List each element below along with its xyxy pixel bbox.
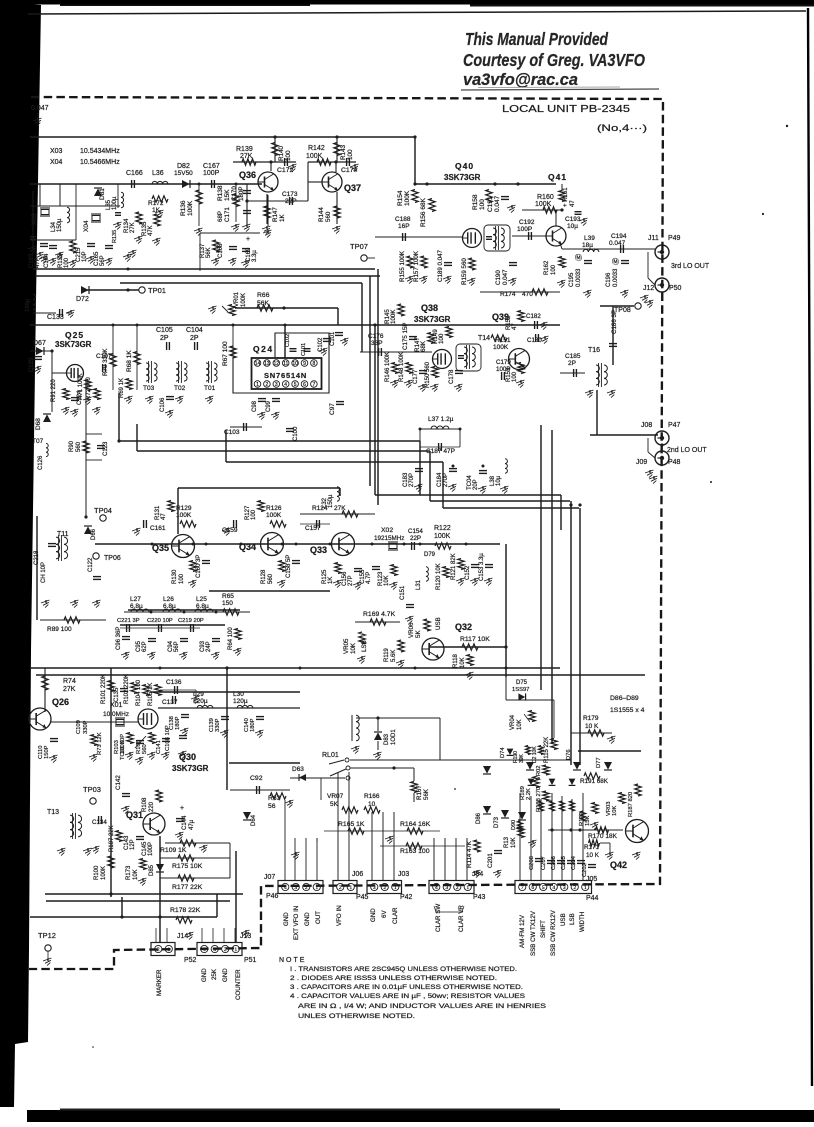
svg-text:R100: R100 <box>94 865 100 880</box>
svg-text:D76: D76 <box>566 749 572 760</box>
svg-text:P43: P43 <box>473 894 486 901</box>
svg-text:180P: 180P <box>250 718 256 732</box>
svg-text:47: 47 <box>161 513 167 520</box>
svg-text:2: 2 <box>224 947 227 953</box>
svg-text:20P: 20P <box>473 479 479 490</box>
svg-text:WIDTH: WIDTH <box>579 912 586 932</box>
svg-text:Ⓜ: Ⓜ <box>612 258 619 266</box>
svg-text:J08: J08 <box>641 422 652 429</box>
svg-text:VR04: VR04 <box>510 714 516 730</box>
svg-text:va3vfo@rac.ca: va3vfo@rac.ca <box>463 71 578 89</box>
svg-text:C135: C135 <box>114 687 120 702</box>
svg-text:2: 2 <box>456 885 459 891</box>
svg-text:D86: D86 <box>476 812 482 824</box>
svg-text:R178 22K: R178 22K <box>170 907 201 914</box>
svg-text:+: + <box>180 805 184 812</box>
svg-text:5: 5 <box>542 885 545 891</box>
svg-text:R115 22K: R115 22K <box>544 737 550 763</box>
svg-text:100K: 100K <box>176 512 192 519</box>
svg-text:P52: P52 <box>184 957 197 964</box>
svg-text:C191: C191 <box>487 196 494 212</box>
svg-text:10K: 10K <box>511 837 517 848</box>
svg-text:100K: 100K <box>266 512 282 519</box>
svg-text:10µ: 10µ <box>567 223 578 230</box>
svg-text:(No,4···): (No,4···) <box>597 123 647 134</box>
svg-text:R69 1K: R69 1K <box>119 378 125 398</box>
svg-text:R90: R90 <box>69 440 75 452</box>
svg-text:18µ: 18µ <box>582 242 593 249</box>
svg-text:L30: L30 <box>233 691 244 698</box>
svg-text:19215MHz: 19215MHz <box>374 535 404 542</box>
svg-text:R151: R151 <box>495 337 511 344</box>
svg-text:This Manual Provided: This Manual Provided <box>465 29 608 49</box>
svg-text:R128: R128 <box>261 569 267 584</box>
svg-text:C161: C161 <box>150 525 166 532</box>
svg-text:C152: C152 <box>465 565 471 580</box>
svg-text:R142: R142 <box>308 145 325 152</box>
svg-text:D67: D67 <box>33 340 46 347</box>
svg-text:C151: C151 <box>400 585 406 600</box>
svg-text:100: 100 <box>251 509 257 520</box>
svg-text:D68: D68 <box>35 418 42 430</box>
svg-text:R173: R173 <box>126 865 132 880</box>
svg-text:R156 68K: R156 68K <box>420 197 427 227</box>
svg-text:10: 10 <box>368 801 376 808</box>
svg-text:15K: 15K <box>224 189 231 201</box>
svg-text:10K: 10K <box>350 642 357 654</box>
svg-text:Q36: Q36 <box>239 170 256 180</box>
svg-text:150µ: 150µ <box>328 494 334 508</box>
svg-text:T13: T13 <box>47 809 59 816</box>
svg-text:Q31: Q31 <box>126 810 143 820</box>
svg-text:4.7P: 4.7P <box>366 572 372 584</box>
svg-text:C104: C104 <box>186 327 203 334</box>
svg-text:C190: C190 <box>495 270 502 285</box>
svg-text:I . TRANSISTORS ARE 2SC945Q: I . TRANSISTORS ARE 2SC945Q UNLESS OTHER… <box>290 966 517 973</box>
svg-text:C220 10P: C220 10P <box>147 618 173 624</box>
svg-text:3SK73GR: 3SK73GR <box>414 315 451 324</box>
svg-text:220: 220 <box>149 801 155 812</box>
svg-text:C122: C122 <box>88 557 94 572</box>
svg-text:100K: 100K <box>306 153 323 160</box>
svg-text:P47: P47 <box>668 422 681 429</box>
svg-text:T01: T01 <box>204 385 216 392</box>
svg-text:3: 3 <box>445 885 448 891</box>
svg-text:SSB CW RX12V: SSB CW RX12V <box>550 909 557 956</box>
svg-text:C172: C172 <box>277 167 293 174</box>
svg-text:P46: P46 <box>266 893 279 900</box>
svg-text:R64 100: R64 100 <box>228 627 234 650</box>
svg-text:R187 820: R187 820 <box>628 792 634 817</box>
svg-text:R119: R119 <box>384 647 390 662</box>
svg-text:1: 1 <box>466 885 469 891</box>
svg-text:39K: 39K <box>519 753 525 763</box>
svg-text:D2 10K: D2 10K <box>532 746 538 763</box>
svg-text:Q25: Q25 <box>65 330 84 340</box>
svg-text:Ⓜ: Ⓜ <box>575 254 582 262</box>
svg-text:6: 6 <box>531 885 534 891</box>
svg-text:R105 1K: R105 1K <box>148 683 154 706</box>
svg-text:100P: 100P <box>203 170 220 177</box>
svg-text:C194: C194 <box>611 233 627 240</box>
svg-text:10µ: 10µ <box>496 475 502 486</box>
svg-text:3: 3 <box>294 885 297 891</box>
svg-text:1: 1 <box>349 885 352 891</box>
svg-text:C176: C176 <box>368 333 384 340</box>
svg-text:C141: C141 <box>156 740 162 754</box>
svg-text:10K: 10K <box>384 575 390 586</box>
svg-text:C134: C134 <box>92 819 107 826</box>
svg-text:2P: 2P <box>160 335 169 342</box>
svg-text:CLAR SW: CLAR SW <box>435 904 442 932</box>
svg-text:560: 560 <box>268 573 274 584</box>
svg-text:C178: C178 <box>449 369 455 384</box>
svg-text:6: 6 <box>303 382 306 388</box>
svg-text:UNLES OTHERWISE NOTED.: UNLES OTHERWISE NOTED. <box>298 1013 415 1020</box>
svg-text:8: 8 <box>313 361 316 367</box>
svg-text:C193: C193 <box>565 216 581 223</box>
svg-text:C96 36P: C96 36P <box>116 627 122 650</box>
svg-text:R122: R122 <box>434 525 451 532</box>
svg-text:Q32: Q32 <box>455 622 472 632</box>
svg-text:13: 13 <box>264 361 270 367</box>
svg-text:R73 12K: R73 12K <box>97 732 103 755</box>
svg-text:Q42: Q42 <box>610 860 627 870</box>
svg-text:5: 5 <box>294 382 297 388</box>
svg-text:TP07: TP07 <box>350 242 368 251</box>
svg-text:NOTE: NOTE <box>279 957 306 964</box>
svg-text:D77: D77 <box>596 757 602 768</box>
svg-text:C106: C106 <box>160 397 166 412</box>
svg-text:11: 11 <box>283 361 288 367</box>
svg-text:R160: R160 <box>537 194 554 201</box>
svg-text:100K: 100K <box>404 190 411 206</box>
svg-text:1: 1 <box>394 885 397 891</box>
svg-text:D85: D85 <box>149 864 155 876</box>
svg-text:120µ: 120µ <box>233 698 248 705</box>
svg-text:D73: D73 <box>494 816 500 828</box>
svg-text:T16: T16 <box>588 347 600 354</box>
svg-text:4: 4 <box>284 885 287 891</box>
svg-text:C185: C185 <box>565 353 581 360</box>
svg-text:2P: 2P <box>190 335 199 342</box>
svg-text:3: 3 <box>563 885 566 891</box>
svg-text:4: 4 <box>435 885 438 891</box>
svg-text:P44: P44 <box>586 895 599 902</box>
svg-text:24P: 24P <box>206 641 212 652</box>
svg-text:P48: P48 <box>668 459 681 466</box>
svg-text:C195: C195 <box>569 272 575 287</box>
svg-text:R102 220K: R102 220K <box>124 674 130 704</box>
svg-text:25K: 25K <box>211 968 218 980</box>
svg-text:330P: 330P <box>215 718 221 732</box>
svg-text:1OD1: 1OD1 <box>391 729 397 745</box>
svg-text:MARKER: MARKER <box>156 969 163 996</box>
svg-text:R157 100K: R157 100K <box>413 250 420 282</box>
svg-text:AM·FM 12V: AM·FM 12V <box>519 914 526 948</box>
svg-text:5K: 5K <box>330 801 339 808</box>
svg-text:2: 2 <box>266 382 269 388</box>
svg-text:SSB CW TX12V: SSB CW TX12V <box>530 910 537 956</box>
svg-text:R67 100: R67 100 <box>222 341 229 366</box>
svg-text:Q35: Q35 <box>152 543 169 553</box>
svg-text:C196: C196 <box>606 272 612 287</box>
svg-text:D79: D79 <box>424 552 436 558</box>
svg-text:J05: J05 <box>586 876 597 883</box>
svg-text:C182: C182 <box>526 313 541 320</box>
svg-text:VR02: VR02 <box>536 765 542 780</box>
svg-text:L25: L25 <box>196 596 207 603</box>
svg-text:10.5466MHz: 10.5466MHz <box>80 159 120 166</box>
svg-text:VR01: VR01 <box>234 291 240 307</box>
svg-text:100P: 100P <box>517 226 532 233</box>
svg-text:TP03: TP03 <box>83 785 101 794</box>
svg-text:5.6K: 5.6K <box>391 650 397 662</box>
svg-text:0.047: 0.047 <box>494 195 501 212</box>
svg-text:1: 1 <box>584 885 587 891</box>
svg-text:R159 560: R159 560 <box>461 258 468 285</box>
svg-text:L26: L26 <box>163 596 174 603</box>
svg-text:X03: X03 <box>50 148 63 155</box>
svg-text:R117 10K: R117 10K <box>460 636 490 643</box>
svg-text:R139: R139 <box>236 146 253 153</box>
svg-text:Courtesy of Greg. VA3VFO: Courtesy of Greg. VA3VFO <box>463 50 645 70</box>
svg-text:180P: 180P <box>175 716 181 730</box>
svg-text:C153 3.3µ: C153 3.3µ <box>479 553 485 581</box>
svg-text:12P: 12P <box>130 839 136 850</box>
svg-text:150µ: 150µ <box>25 298 31 312</box>
svg-text:C168: C168 <box>218 243 224 258</box>
svg-text:L31: L31 <box>416 579 422 590</box>
svg-text:560: 560 <box>142 744 148 754</box>
svg-text:C201: C201 <box>487 853 494 868</box>
svg-text:150µ: 150µ <box>57 218 63 232</box>
svg-text:R175 10K: R175 10K <box>172 863 203 870</box>
svg-text:33P: 33P <box>371 340 383 347</box>
svg-text:120µ: 120µ <box>193 698 208 705</box>
svg-text:C158 5P: C158 5P <box>286 555 292 578</box>
svg-text:USB: USB <box>435 617 442 630</box>
svg-text:C207: C207 <box>541 856 547 870</box>
svg-text:C186 3P: C186 3P <box>611 310 618 334</box>
svg-text:C136: C136 <box>166 679 182 686</box>
svg-text:R138: R138 <box>217 185 224 201</box>
svg-text:4: 4 <box>203 947 206 953</box>
svg-text:C99: C99 <box>266 400 272 412</box>
svg-text:10K: 10K <box>517 719 523 730</box>
svg-text:1S1555 x 4: 1S1555 x 4 <box>610 707 645 714</box>
svg-text:4 . CAPACITOR VALUES ARE: 4 . CAPACITOR VALUES ARE IN µF , 50wv; R… <box>290 993 526 1000</box>
svg-text:D82: D82 <box>177 163 190 170</box>
svg-text:2: 2 <box>383 885 386 891</box>
svg-text:1: 1 <box>234 947 237 953</box>
svg-text:C102: C102 <box>285 334 291 347</box>
svg-text:USB: USB <box>560 913 567 926</box>
svg-text:D63: D63 <box>292 766 304 773</box>
svg-text:C107: C107 <box>96 353 112 360</box>
svg-text:10 K: 10 K <box>586 852 600 859</box>
svg-text:100K: 100K <box>493 344 509 351</box>
svg-text:150: 150 <box>222 600 233 607</box>
svg-text:EXT VFO IN: EXT VFO IN <box>293 906 300 940</box>
svg-text:R167: R167 <box>416 785 423 800</box>
svg-text:R89 100: R89 100 <box>47 626 72 633</box>
svg-text:P49: P49 <box>668 235 681 242</box>
svg-text:14: 14 <box>255 361 261 367</box>
svg-text:OUT: OUT <box>315 911 322 924</box>
svg-text:R191 68K: R191 68K <box>580 778 609 785</box>
svg-text:47K: 47K <box>148 225 154 236</box>
svg-text:C105: C105 <box>156 327 173 334</box>
svg-text:R129: R129 <box>176 505 192 512</box>
svg-text:0.047: 0.047 <box>31 105 49 112</box>
svg-text:3.3µ: 3.3µ <box>252 250 258 262</box>
svg-text:C144: C144 <box>182 815 188 830</box>
svg-text:C189 0.047: C189 0.047 <box>437 249 444 282</box>
svg-text:D81: D81 <box>99 188 106 200</box>
svg-text:R162: R162 <box>544 260 550 275</box>
svg-text:56K: 56K <box>423 788 430 800</box>
svg-text:T03: T03 <box>143 385 155 392</box>
svg-text:J07: J07 <box>264 874 275 881</box>
svg-text:1: 1 <box>167 947 170 953</box>
svg-text:1: 1 <box>256 382 259 388</box>
svg-text:C175 15P: C175 15P <box>402 322 409 350</box>
svg-text:R66: R66 <box>257 292 270 299</box>
svg-text:R130: R130 <box>172 569 178 584</box>
svg-text:X04: X04 <box>50 159 63 166</box>
svg-text:GND: GND <box>222 968 229 982</box>
svg-text:C187 47P: C187 47P <box>426 448 455 455</box>
svg-text:3: 3 <box>275 382 278 388</box>
svg-text:47µ: 47µ <box>189 819 195 830</box>
svg-text:X04: X04 <box>83 220 90 232</box>
svg-text:LOCAL UNIT PB-2345: LOCAL UNIT PB-2345 <box>502 104 631 115</box>
svg-text:5K: 5K <box>415 630 422 638</box>
svg-text:6V: 6V <box>381 910 388 918</box>
svg-text:C109: C109 <box>76 720 82 734</box>
svg-text:100K: 100K <box>434 533 451 540</box>
svg-text:C218: C218 <box>34 550 40 565</box>
svg-text:R166: R166 <box>364 793 380 800</box>
svg-text:3: 3 <box>373 885 376 891</box>
svg-text:C167: C167 <box>203 163 220 170</box>
svg-text:2: 2 <box>157 947 160 953</box>
svg-text:R118: R118 <box>453 653 459 668</box>
svg-text:Q24: Q24 <box>253 344 274 354</box>
svg-text:2: 2 <box>305 885 308 891</box>
svg-text:3SK73GR: 3SK73GR <box>444 173 481 182</box>
svg-text:Q26: Q26 <box>52 697 69 707</box>
svg-text:47: 47 <box>570 200 576 207</box>
svg-text:100K: 100K <box>390 309 397 324</box>
svg-text:CLAR: CLAR <box>392 907 399 924</box>
svg-text:270P: 270P <box>409 473 415 487</box>
svg-text:LSB: LSB <box>569 913 576 925</box>
svg-text:27K: 27K <box>130 222 136 233</box>
svg-text:VR05: VR05 <box>343 638 350 654</box>
svg-text:R143: R143 <box>340 144 347 160</box>
svg-text:Q30: Q30 <box>179 752 196 762</box>
svg-text:R101 220K: R101 220K <box>101 674 107 704</box>
svg-text:2nd LO OUT: 2nd LO OUT <box>667 447 707 454</box>
svg-text:L36: L36 <box>152 170 164 177</box>
svg-text:C154: C154 <box>408 528 423 535</box>
svg-text:R158: R158 <box>472 194 479 210</box>
svg-text:+: + <box>246 236 250 243</box>
svg-text:2: 2 <box>339 885 342 891</box>
svg-text:27K: 27K <box>63 686 76 693</box>
svg-text:R154: R154 <box>397 190 404 206</box>
svg-text:J04: J04 <box>472 871 483 878</box>
svg-text:100: 100 <box>551 264 557 275</box>
svg-text:R144: R144 <box>318 207 325 222</box>
svg-text:TP04: TP04 <box>94 506 112 515</box>
svg-text:D75: D75 <box>516 680 528 686</box>
svg-text:D66: D66 <box>91 528 97 540</box>
svg-text:GND: GND <box>283 912 290 926</box>
svg-text:270P: 270P <box>443 473 449 487</box>
svg-text:330P: 330P <box>83 720 89 734</box>
svg-text:C208: C208 <box>529 856 535 870</box>
svg-text:C123: C123 <box>103 441 109 456</box>
svg-text:0.047: 0.047 <box>502 269 509 285</box>
svg-text:150P: 150P <box>44 745 50 759</box>
svg-text:X03: X03 <box>31 213 38 225</box>
svg-text:3rd LO OUT: 3rd LO OUT <box>671 263 710 270</box>
svg-text:L27: L27 <box>130 596 141 603</box>
svg-text:10 K: 10 K <box>585 723 599 730</box>
svg-text:100µ: 100µ <box>112 196 118 210</box>
svg-text:C221 3P: C221 3P <box>117 618 140 624</box>
svg-text:10P: 10P <box>82 251 88 262</box>
svg-text:Q38: Q38 <box>421 303 438 313</box>
svg-text:Q37: Q37 <box>344 183 361 193</box>
svg-text:100: 100 <box>285 150 292 161</box>
svg-text:10K: 10K <box>133 869 139 880</box>
svg-text:R164 16K: R164 16K <box>400 821 431 828</box>
svg-text:C103: C103 <box>224 429 240 436</box>
svg-text:C192: C192 <box>519 219 535 226</box>
svg-text:T14: T14 <box>478 335 490 342</box>
svg-text:1K: 1K <box>279 214 286 222</box>
svg-text:J11: J11 <box>648 235 659 242</box>
svg-text:VFO IN: VFO IN <box>336 905 343 926</box>
svg-text:10K: 10K <box>612 806 618 816</box>
svg-text:J09: J09 <box>636 459 647 466</box>
svg-text:R91 220: R91 220 <box>51 379 57 402</box>
svg-text:560: 560 <box>76 441 82 452</box>
svg-text:C97: C97 <box>329 403 336 415</box>
svg-text:68P: 68P <box>217 211 224 222</box>
svg-text:1SS97: 1SS97 <box>512 687 529 693</box>
svg-text:Q41: Q41 <box>548 172 567 182</box>
svg-text:X01: X01 <box>110 702 123 709</box>
svg-text:C101: C101 <box>301 343 307 356</box>
svg-text:R136: R136 <box>180 200 187 216</box>
svg-text:VR07: VR07 <box>327 793 344 800</box>
svg-text:100K: 100K <box>101 866 107 880</box>
svg-text:GND: GND <box>370 908 377 922</box>
svg-text:TP06: TP06 <box>104 555 121 562</box>
svg-text:D72: D72 <box>76 296 89 303</box>
svg-text:56P: 56P <box>174 641 180 652</box>
svg-text:ARE IN Ω , I/4 W; AND IND: ARE IN Ω , I/4 W; AND INDUCTOR VALUES AR… <box>298 1003 547 1010</box>
svg-text:R177 22K: R177 22K <box>172 884 203 891</box>
svg-text:R71 100K: R71 100K <box>78 373 84 400</box>
svg-text:TP01: TP01 <box>148 286 166 295</box>
svg-text:D86–D89: D86–D89 <box>610 695 639 702</box>
